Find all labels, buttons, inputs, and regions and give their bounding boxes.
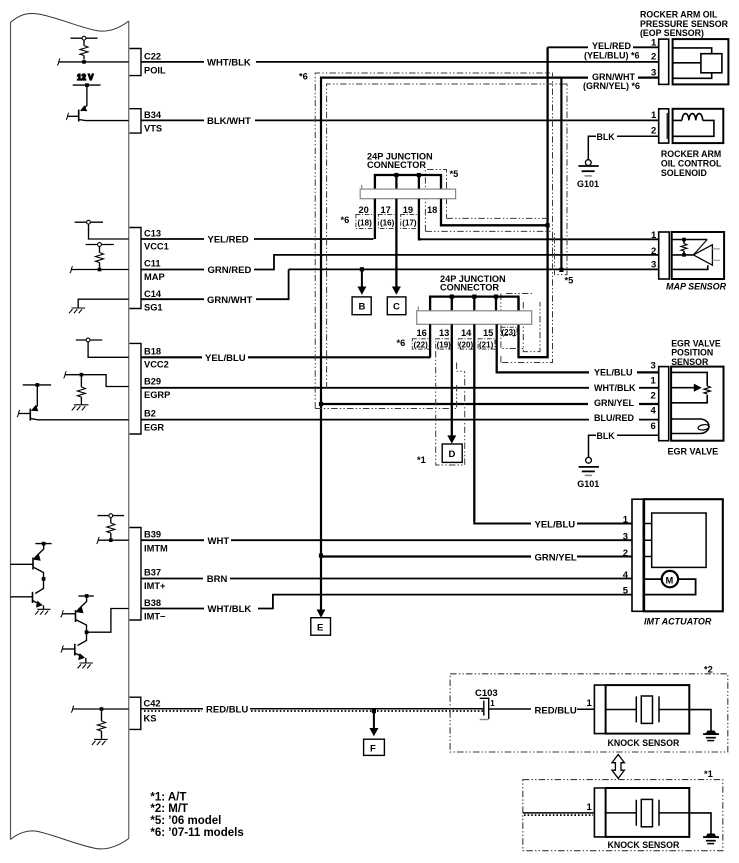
- svg-text:GRN/YEL: GRN/YEL: [535, 552, 577, 563]
- wire BLK/WHT B34 to solenoid pin1: [141, 119, 659, 121]
- wire RED/BLU C103 to knock sensor pin1: [489, 708, 595, 710]
- junction dot GRN/WHT at MAP line: [559, 268, 563, 272]
- svg-text:B34: B34: [144, 110, 162, 120]
- transistor pair Q at IMT+: [11, 542, 52, 615]
- svg-text:KNOCK SENSOR: KNOCK SENSOR: [608, 840, 680, 850]
- dash-dot box *5 second junction pin23: [501, 294, 523, 349]
- node B box: [352, 297, 371, 315]
- svg-text:B38: B38: [144, 598, 161, 608]
- svg-text:19: 19: [403, 205, 413, 215]
- busbar dot pin13: [450, 295, 454, 299]
- svg-text:YEL/BLU: YEL/BLU: [594, 367, 633, 377]
- knock sensor A/T dash-dot box *1: [523, 780, 723, 851]
- svg-text:*5: ’06 model: *5: ’06 model: [150, 815, 221, 827]
- svg-text:*5: *5: [450, 169, 459, 179]
- node F arrow from RED/BLU line: [373, 711, 375, 729]
- dash-dot box *6 inner top: [327, 84, 567, 389]
- svg-text:(23): (23): [502, 328, 517, 337]
- svg-text:*1: *1: [704, 769, 713, 779]
- pin13 column to D arrow: [451, 324, 453, 436]
- MAP sensor internal bridge + amp: [672, 238, 720, 270]
- node D arrow from pin13 column: [447, 435, 456, 443]
- svg-text:3: 3: [651, 260, 656, 271]
- VCC1 source symbol at C13: [75, 220, 129, 239]
- LETTERBOXES: [311, 267, 462, 755]
- wire BRN B37 to IMT pin4: [141, 578, 632, 580]
- wire YEL/RED C13 to junction pin20: [141, 238, 374, 240]
- junction dot pin18 wire at trunk: [546, 223, 550, 227]
- wire YEL/BLU B18 to junction2 pin16: [141, 356, 431, 358]
- ground G101 upper: [585, 160, 591, 166]
- node C box: [387, 297, 406, 315]
- connector C22/POIL bracket: [130, 49, 167, 76]
- ECM left wall: [10, 23, 12, 840]
- svg-text:EGR: EGR: [144, 423, 164, 433]
- wire GRN/YEL sensor ground loop: EOP pin3 down to MAP line and around to EGR pin2 and E: [321, 78, 659, 611]
- svg-text:B29: B29: [144, 377, 161, 387]
- knock sensor A/T shielded wire: [523, 813, 595, 815]
- svg-text:GRN/WHT: GRN/WHT: [207, 295, 253, 306]
- wire BLU/RED B2 to EGR valve pin4: [141, 419, 659, 421]
- node B arrow from GRN/WHT line: [360, 267, 364, 271]
- svg-text:12 V: 12 V: [77, 73, 94, 82]
- svg-text:B: B: [359, 302, 366, 313]
- knock sensor M/T piezo element: [606, 696, 690, 723]
- svg-text:6: 6: [651, 421, 656, 432]
- svg-text:2: 2: [651, 52, 656, 63]
- svg-text:POIL: POIL: [144, 66, 166, 76]
- svg-text:WHT/BLK: WHT/BLK: [594, 383, 636, 393]
- svg-text:3: 3: [651, 360, 656, 371]
- resistor to ground at C42/KS: [71, 706, 129, 745]
- wire YEL/RED-YEL/BLU EOP pin1 vertical trunk: [519, 47, 548, 357]
- svg-text:RED/BLU: RED/BLU: [206, 705, 248, 716]
- svg-text:1: 1: [651, 37, 657, 48]
- SG1 ground at C14: [69, 299, 129, 313]
- VCC2 source symbol at B18: [76, 338, 129, 357]
- MAP sensor connector: [659, 232, 670, 279]
- EGR valve solenoid plunger: [671, 419, 709, 434]
- svg-text:WHT: WHT: [208, 536, 230, 547]
- svg-text:*6: ’07-11 models: *6: ’07-11 models: [150, 827, 243, 839]
- svg-text:2: 2: [651, 246, 656, 257]
- svg-text:1: 1: [651, 230, 657, 241]
- EOP sensor box: [673, 39, 729, 84]
- EGR box: [671, 367, 723, 441]
- knock sensor A/T ground: [689, 813, 719, 844]
- pin14 column to IMT pin1 wire: [473, 324, 475, 521]
- pin19 column turns right into YEL/RED: [419, 199, 421, 240]
- svg-text:M: M: [666, 576, 674, 586]
- svg-text:B39: B39: [144, 530, 161, 540]
- svg-text:(16): (16): [380, 218, 395, 227]
- MAP sensor box: [672, 232, 724, 279]
- svg-text:EGRP: EGRP: [144, 390, 170, 400]
- ECM torn top edge: [11, 13, 129, 31]
- svg-text:MAP SENSOR: MAP SENSOR: [666, 281, 727, 291]
- svg-text:13: 13: [439, 328, 449, 338]
- EOP sensor connector: [659, 39, 669, 84]
- knock sensor A/T piezo element: [606, 799, 690, 826]
- knock sensor M/T ground: [689, 710, 719, 741]
- svg-text:(18): (18): [358, 218, 373, 227]
- svg-text:*6: *6: [341, 215, 350, 225]
- busbar dot pin15: [494, 295, 498, 299]
- svg-text:EGR VALVE: EGR VALVE: [668, 447, 719, 457]
- svg-text:C: C: [393, 302, 400, 313]
- junction dot GRN/YEL at EGR branch: [319, 402, 323, 406]
- svg-text:3: 3: [651, 68, 656, 79]
- connector C103: [475, 688, 498, 720]
- svg-text:*5: *5: [565, 276, 574, 286]
- dash-dot box *6 outer: [315, 73, 552, 409]
- connector B34/VTS bracket: [130, 109, 163, 134]
- svg-text:CONNECTOR: CONNECTOR: [367, 160, 426, 170]
- svg-text:C42: C42: [144, 699, 161, 709]
- svg-text:IMTM: IMTM: [144, 544, 168, 554]
- svg-text:F: F: [370, 743, 376, 754]
- junction 1 busbar: [375, 175, 441, 189]
- svg-text:(19): (19): [437, 340, 452, 349]
- svg-text:16: 16: [417, 328, 427, 338]
- node F box: [364, 739, 385, 755]
- svg-text:*2: *2: [704, 664, 713, 674]
- junction 2 connector body: [417, 307, 532, 325]
- svg-text:YEL/BLU: YEL/BLU: [535, 519, 576, 530]
- svg-text:*6: *6: [397, 338, 406, 348]
- pin20 column to YEL/RED: [374, 199, 376, 239]
- svg-text:2: 2: [651, 391, 656, 402]
- svg-text:BLK: BLK: [597, 431, 616, 441]
- 12V transistor at B34: [66, 73, 129, 122]
- svg-text:IMT ACTUATOR: IMT ACTUATOR: [644, 616, 712, 626]
- svg-text:KNOCK SENSOR: KNOCK SENSOR: [608, 738, 680, 748]
- wire WHT/BLK B38 to IMT pin5: [141, 595, 632, 609]
- svg-text:C14: C14: [144, 289, 162, 299]
- svg-text:GRN/YEL: GRN/YEL: [594, 398, 635, 408]
- svg-text:RED/BLU: RED/BLU: [535, 705, 577, 716]
- IMT motor M: [643, 571, 695, 595]
- EGR connector: [659, 367, 669, 441]
- svg-text:(22): (22): [414, 340, 429, 349]
- knock sensor M/T box: [606, 685, 690, 734]
- EGR position sensor potentiometer: [671, 372, 710, 402]
- svg-text:1: 1: [587, 698, 593, 709]
- svg-text:20: 20: [359, 205, 369, 215]
- svg-text:VCC2: VCC2: [144, 360, 169, 370]
- dash-dot box outer bottom right: [500, 355, 502, 363]
- svg-text:B18: B18: [144, 347, 161, 357]
- solenoid box: [673, 109, 724, 143]
- svg-text:SOLENOID: SOLENOID: [661, 168, 707, 178]
- svg-text:MAP: MAP: [144, 272, 165, 282]
- svg-text:C11: C11: [144, 259, 161, 269]
- node E box: [311, 618, 331, 636]
- svg-text:OIL CONTROL: OIL CONTROL: [661, 159, 722, 169]
- svg-text:*2: M/T: *2: M/T: [150, 803, 188, 815]
- svg-text:C22: C22: [144, 52, 161, 62]
- svg-text:WHT/BLK: WHT/BLK: [207, 58, 251, 69]
- wire BLK solenoid pin2 to G101: [588, 136, 658, 159]
- svg-text:CONNECTOR: CONNECTOR: [440, 283, 499, 293]
- svg-text:C103: C103: [475, 688, 498, 699]
- svg-text:(GRN/YEL) *6: (GRN/YEL) *6: [583, 81, 640, 91]
- connector B18/B29/B2 bracket: [130, 343, 171, 434]
- wire YEL/RED junction pin19 to MAP pin1: [420, 238, 659, 240]
- resistor network at B39: [97, 514, 129, 544]
- resistor to ground at B29: [64, 371, 129, 410]
- svg-text:ROCKER ARM: ROCKER ARM: [661, 149, 721, 159]
- solenoid coil: [673, 114, 714, 137]
- wire GRN/WHT C14 to MAP pin3: [141, 269, 659, 299]
- svg-text:14: 14: [461, 328, 472, 338]
- svg-text:GRN/RED: GRN/RED: [208, 265, 252, 276]
- pin17 column to C arrow: [395, 199, 397, 289]
- svg-text:BRN: BRN: [207, 574, 228, 585]
- svg-text:D: D: [449, 449, 456, 460]
- boxed label (18): [356, 215, 419, 229]
- transistor pair Q at IMT-: [61, 594, 129, 668]
- resistor network at C22 (bar, circle, resistor R, node): [57, 36, 129, 65]
- svg-text:4: 4: [651, 406, 657, 417]
- busbar dot pin14: [472, 295, 476, 299]
- svg-text:KS: KS: [144, 714, 157, 724]
- svg-text:18: 18: [427, 205, 437, 215]
- junction 2 busbar: [430, 297, 518, 311]
- svg-text:B2: B2: [144, 409, 156, 419]
- connector C42/KS bracket: [130, 697, 161, 729]
- svg-text:E: E: [317, 622, 323, 633]
- NOTES: [150, 71, 307, 839]
- resistor network at C11 (bar, circle, resistor): [70, 243, 129, 274]
- IMT connector: [632, 499, 643, 611]
- svg-text:IMT+: IMT+: [144, 581, 166, 591]
- connector B39/B37/B38 bracket: [130, 528, 169, 622]
- svg-text:(EOP SENSOR): (EOP SENSOR): [640, 28, 704, 38]
- node E arrow from GRN/YEL vertical: [317, 610, 326, 618]
- ground G101 lower: [586, 457, 592, 463]
- svg-text:BLK: BLK: [597, 132, 616, 142]
- knock sensor A/T connector: [594, 788, 604, 837]
- JUNCTION1: [341, 152, 547, 289]
- svg-text:SENSOR: SENSOR: [671, 357, 709, 367]
- svg-text:1: 1: [490, 699, 495, 708]
- svg-text:*1: A/T: *1: A/T: [150, 791, 186, 803]
- wire GRN/YEL to IMT pin2: [577, 556, 632, 558]
- knock sensor M/T dash-dot box *2: [450, 674, 728, 752]
- svg-text:17: 17: [381, 205, 391, 215]
- dash-dot box *5 first junction pin18: [425, 170, 446, 232]
- IMT flap element: [652, 513, 706, 567]
- svg-text:VCC1: VCC1: [144, 242, 169, 252]
- node D box: [442, 444, 462, 462]
- svg-text:(17): (17): [402, 218, 417, 227]
- svg-text:3: 3: [623, 532, 628, 543]
- svg-text:2: 2: [651, 125, 656, 136]
- svg-text:BLK/WHT: BLK/WHT: [207, 116, 251, 127]
- dash-dot box around (23) label: [502, 327, 518, 335]
- dash-dot box *1 around D: [436, 351, 465, 465]
- junction dot F-branch on RED/BLU: [372, 709, 376, 713]
- svg-text:(21): (21): [479, 340, 494, 349]
- connector C13/C11/C14 bracket: [130, 228, 169, 313]
- wire WHT/BLK C22 to EOP pin2: [141, 61, 659, 63]
- svg-text:B37: B37: [144, 568, 161, 578]
- dash-dot tube around pin18 wire: [447, 217, 548, 219]
- svg-text:2: 2: [623, 548, 628, 559]
- svg-text:VTS: VTS: [144, 124, 162, 134]
- svg-text:1: 1: [587, 802, 593, 813]
- svg-text:(YEL/BLU) *6: (YEL/BLU) *6: [584, 50, 640, 60]
- knock sensor A/T box: [606, 788, 690, 837]
- swap arrow between knock sensors: [612, 755, 624, 779]
- wire YEL/RED top to EOP pin1: [548, 46, 659, 48]
- svg-text:(20): (20): [459, 340, 474, 349]
- svg-text:1: 1: [623, 515, 629, 526]
- svg-text:15: 15: [483, 328, 493, 338]
- knock sensor M/T connector: [594, 685, 604, 734]
- busbar dot pin19: [417, 173, 421, 177]
- svg-text:BLU/RED: BLU/RED: [594, 413, 634, 423]
- svg-text:1: 1: [651, 375, 657, 386]
- busbar dot pin17: [394, 173, 398, 177]
- wire RED/BLU shielded C42 to C103: [141, 709, 484, 711]
- svg-text:IMT−: IMT−: [144, 612, 166, 622]
- node C arrow from pin17 column: [392, 287, 401, 295]
- boxed labels (22)(19)(20)(21): [412, 339, 495, 349]
- wire YEL/BLU junction2 pin14 to IMT pin1: [474, 520, 632, 524]
- ECM torn bottom edge: [11, 831, 129, 849]
- pin15 column turns right to EGR sensor pin3: [497, 324, 659, 372]
- svg-text:WHT/BLK: WHT/BLK: [208, 604, 252, 615]
- svg-text:4: 4: [623, 570, 629, 581]
- wire BLK EGR valve pin6 to G101: [589, 435, 659, 457]
- JUNCTION2: [397, 274, 659, 521]
- svg-text:*1: *1: [417, 455, 426, 465]
- wire WHT/BLK B29 to EGR sensor pin1: [141, 387, 659, 389]
- EOP sensor element: [673, 48, 712, 78]
- junction dot GRN/YEL at IMT branch: [319, 554, 323, 558]
- wire WHT B39 to IMT pin3: [141, 539, 632, 541]
- DASHDOT: [315, 73, 567, 465]
- svg-text:G101: G101: [577, 179, 599, 189]
- svg-text:1: 1: [651, 110, 657, 121]
- svg-text:YEL/BLU: YEL/BLU: [205, 353, 246, 364]
- svg-text:G101: G101: [577, 479, 599, 489]
- ECM right wall: [128, 21, 130, 839]
- svg-text:*6: *6: [299, 71, 308, 81]
- svg-text:5: 5: [623, 586, 629, 597]
- svg-text:SG1: SG1: [144, 303, 163, 313]
- IMT actuator box: [644, 499, 723, 611]
- pin16 column from YEL/BLU: [429, 324, 431, 357]
- pin18 column turns right to trunk: [441, 199, 546, 226]
- svg-text:C13: C13: [144, 229, 161, 239]
- ECM-BLOCK: [11, 13, 171, 848]
- wire GRN/RED C11 to MAP pin2: [141, 255, 659, 270]
- junction 1 connector body: [360, 185, 455, 199]
- solenoid connector: [659, 109, 669, 143]
- transistor at B2: [17, 383, 129, 421]
- svg-text:YEL/RED: YEL/RED: [208, 235, 249, 246]
